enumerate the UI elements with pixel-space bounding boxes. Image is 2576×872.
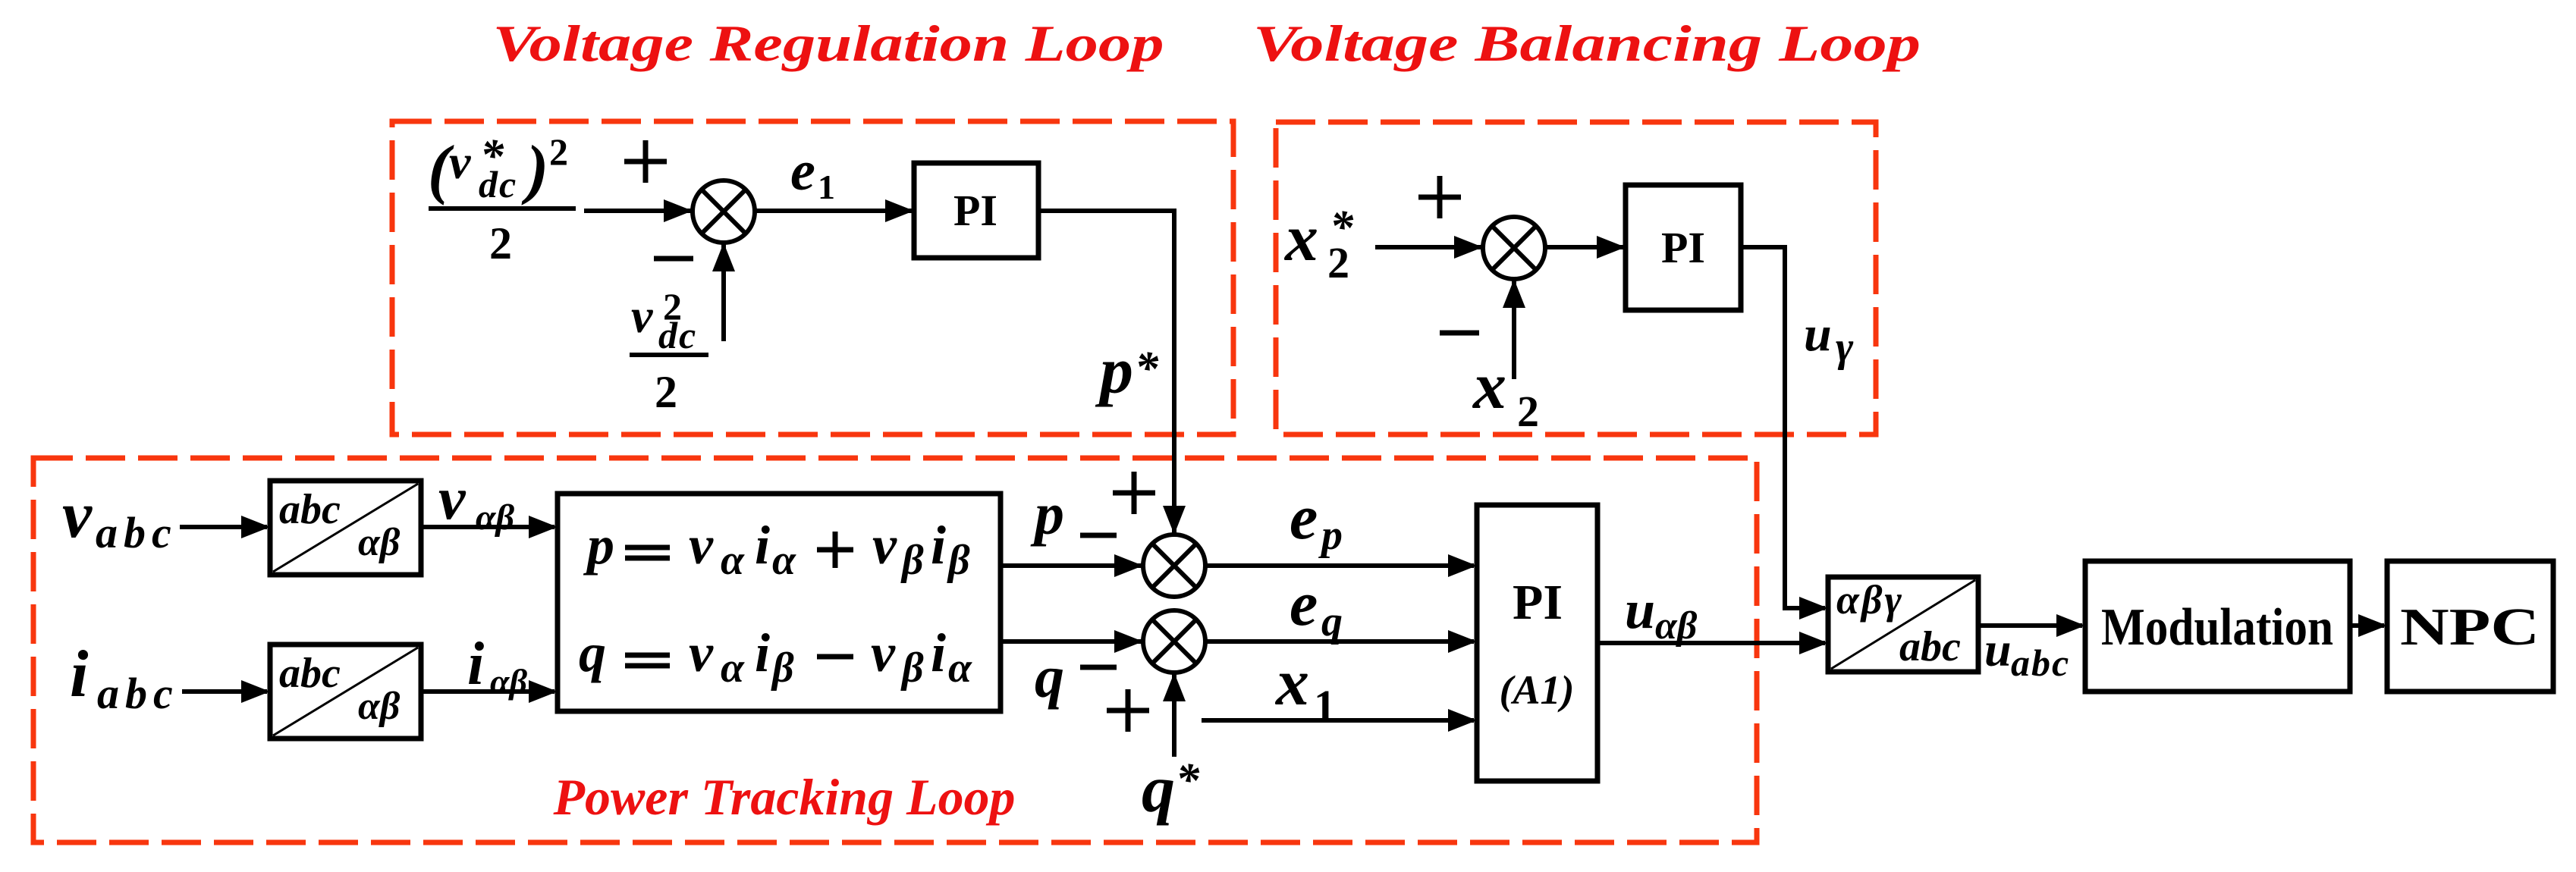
svg-text:αβ: αβ [490, 662, 527, 701]
svg-text:2: 2 [1517, 387, 1539, 436]
svg-text:x: x [1283, 202, 1318, 275]
svg-text:β: β [900, 645, 924, 692]
svg-text:x: x [1274, 646, 1309, 720]
svg-text:abc: abc [279, 650, 341, 697]
svg-text:p: p [1318, 512, 1343, 559]
svg-text:e: e [1290, 569, 1318, 639]
svg-text:α: α [772, 537, 796, 584]
svg-text:Power Tracking Loop: Power Tracking Loop [553, 768, 1016, 826]
svg-text:NPC: NPC [2400, 598, 2540, 657]
svg-text:αβ: αβ [1655, 604, 1698, 648]
svg-text:x: x [1472, 350, 1506, 423]
svg-text:*: * [1176, 754, 1200, 806]
svg-text:i: i [755, 515, 770, 576]
svg-text:1: 1 [818, 168, 835, 206]
svg-text:i: i [755, 623, 770, 683]
svg-text:u: u [1804, 306, 1832, 362]
svg-text:1: 1 [1314, 681, 1336, 730]
svg-text:q: q [1321, 598, 1343, 645]
svg-text:dc: dc [658, 314, 697, 356]
svg-text:*: * [1330, 202, 1354, 253]
svg-text:Modulation: Modulation [2101, 598, 2333, 657]
svg-text:PI: PI [953, 186, 997, 235]
svg-text:v: v [689, 623, 714, 683]
svg-text:v: v [872, 515, 897, 576]
svg-text:u: u [1984, 623, 2012, 676]
svg-text:2: 2 [655, 367, 677, 417]
svg-text:α: α [721, 537, 745, 584]
svg-text:q: q [1142, 753, 1175, 827]
svg-text:α: α [721, 645, 745, 692]
svg-text:p: p [583, 515, 614, 576]
svg-text:αβγ: αβγ [1836, 577, 1904, 623]
svg-text:e: e [1290, 482, 1318, 553]
svg-text:abc: abc [96, 508, 177, 557]
svg-text:v: v [438, 466, 467, 532]
svg-text:i: i [467, 631, 484, 698]
svg-text:dc: dc [479, 163, 517, 205]
svg-text:PI: PI [1513, 575, 1563, 630]
svg-text:v: v [689, 515, 714, 576]
svg-text:β: β [900, 537, 924, 584]
svg-text:2: 2 [489, 218, 512, 268]
svg-text:q: q [1035, 644, 1064, 710]
svg-text:α: α [948, 645, 972, 692]
svg-text:β: β [771, 645, 794, 692]
svg-text:Voltage Regulation Loop: Voltage Regulation Loop [493, 14, 1164, 72]
svg-text:v: v [449, 135, 471, 189]
svg-text:v: v [62, 478, 93, 552]
svg-text:abc: abc [2011, 641, 2070, 684]
svg-text:p: p [1030, 481, 1064, 547]
svg-text:γ: γ [1836, 324, 1854, 371]
svg-text:e: e [790, 140, 815, 202]
svg-text:αβ: αβ [358, 521, 401, 564]
svg-text:2: 2 [549, 130, 568, 173]
svg-text:abc: abc [1899, 623, 1961, 670]
svg-text:*: * [1135, 343, 1159, 394]
svg-text:PI: PI [1661, 223, 1705, 272]
svg-text:αβ: αβ [358, 685, 401, 728]
svg-text:abc: abc [97, 669, 179, 718]
svg-text:(A1): (A1) [1500, 667, 1575, 713]
svg-text:v: v [631, 289, 653, 343]
svg-text:i: i [931, 515, 946, 576]
svg-text:αβ: αβ [476, 497, 515, 538]
svg-text:i: i [931, 623, 946, 683]
svg-text:q: q [579, 623, 606, 683]
svg-text:β: β [947, 537, 970, 584]
svg-text:u: u [1625, 579, 1655, 640]
svg-text:i: i [70, 638, 89, 711]
svg-text:v: v [871, 623, 896, 683]
svg-text:p: p [1095, 334, 1133, 408]
svg-text:abc: abc [279, 486, 341, 533]
svg-text:Voltage Balancing Loop: Voltage Balancing Loop [1253, 14, 1921, 72]
